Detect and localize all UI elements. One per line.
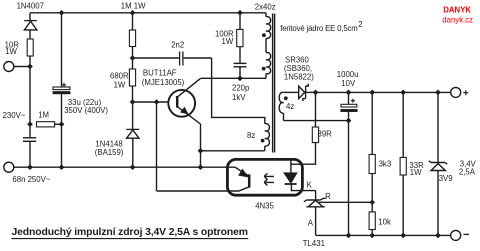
junction rail 220p (237, 10, 242, 15)
wire +out rail (316, 91, 451, 93)
zener D4 3V9 (429, 92, 447, 235)
junction emitter / 8z (198, 148, 203, 153)
wire rail to R3 (132, 13, 134, 30)
svg-text:2,5A: 2,5A (459, 167, 476, 176)
svg-text:2: 2 (358, 20, 362, 29)
label minus sign output (464, 233, 470, 235)
wire x30 column down to 68n (29, 67, 31, 138)
svg-text:danyk.cz: danyk.cz (442, 16, 473, 25)
wire 8z bottom to emitter (201, 150, 265, 152)
svg-text:3V9: 3V9 (439, 174, 453, 183)
diode D2 1N4148 (BA159) (126, 129, 139, 167)
wire base (133, 101, 169, 103)
wire terminal L to node (14, 66, 30, 68)
junction gnd x30 (27, 165, 32, 170)
svg-text:1N5822): 1N5822) (284, 73, 314, 82)
svg-text:1W: 1W (222, 37, 234, 46)
junction -rail x348.5 (346, 233, 351, 238)
resistor R6 3k3 (369, 92, 375, 211)
svg-text:BUT11AF: BUT11AF (143, 69, 177, 78)
junction collector 220p (237, 76, 242, 81)
wire output gnd rail (316, 234, 451, 236)
svg-text:68n 250V~: 68n 250V~ (12, 175, 50, 184)
svg-text:1W: 1W (5, 47, 17, 56)
label + of 33u (62, 83, 66, 87)
junction 1M left (27, 122, 32, 127)
label 3,4V 2,5A (459, 159, 477, 176)
svg-text:1W: 1W (114, 80, 126, 89)
junction ref divider (370, 200, 375, 205)
svg-text:1W: 1W (410, 168, 422, 177)
label feritove jadro EE 0,5cm2 (280, 20, 362, 33)
resistor R3 1M 1W (startup) (129, 30, 135, 47)
junction +rail 1000u (346, 90, 351, 95)
wire top +310V rail (30, 12, 266, 14)
resistor R2 1M (bleeder) (37, 122, 55, 127)
svg-text:(MJE13005): (MJE13005) (142, 78, 185, 87)
wire base node down to 1N4148 (132, 102, 134, 129)
resistor R7 10k (369, 212, 375, 236)
wire 680R to base node (132, 86, 134, 102)
svg-text:350V (400V): 350V (400V) (64, 106, 108, 115)
terminal output minus (451, 230, 461, 240)
wire D3 to +out rail (306, 91, 316, 93)
svg-text:DANYK: DANYK (443, 6, 471, 15)
junction 2n2 node (130, 55, 135, 60)
wire 2n2 to 8z top (212, 58, 265, 124)
label 100R 1W (215, 29, 234, 46)
svg-text:feritové jádro EE 0,5cm: feritové jádro EE 0,5cm (280, 24, 358, 33)
capacitor C4 220p 1kV (234, 47, 247, 79)
diode D1 1N4007 (24, 21, 37, 39)
label 1N4148 (BA159) (95, 140, 124, 158)
svg-text:2n2: 2n2 (171, 41, 184, 50)
svg-text:2x40z: 2x40z (255, 2, 276, 11)
resistor R4 680R 1W (129, 69, 135, 86)
optocoupler U1 4N35 box (227, 159, 302, 195)
terminal output plus (451, 87, 461, 97)
junction +rail 33R (401, 90, 406, 95)
svg-text:39R: 39R (318, 129, 333, 138)
svg-text:1M 1W: 1M 1W (121, 2, 146, 11)
capacitor C3 2n2 (133, 52, 212, 66)
svg-text:K: K (307, 180, 313, 189)
label 1000u 10V (337, 70, 359, 88)
junction -rail x438 (435, 233, 440, 238)
junction gnd x200.5 (198, 165, 203, 170)
svg-text:3k3: 3k3 (379, 160, 392, 169)
capacitor C5 1000u 10V (341, 92, 358, 120)
svg-text:(BA159): (BA159) (95, 148, 124, 157)
junction -rail x372.2 (370, 233, 375, 238)
svg-text:1kV: 1kV (232, 93, 246, 102)
wire primary ground rail (14, 166, 228, 168)
svg-text:1M: 1M (38, 110, 49, 119)
svg-text:1000u: 1000u (337, 70, 359, 79)
junction rail x132.5 (130, 10, 135, 15)
wire x61.5 rail to 33u (61, 13, 63, 87)
label plus sign output (463, 90, 468, 95)
resistor R5 39R (291, 92, 319, 164)
capacitor C2 33u 350V electrolytic (53, 87, 70, 94)
junction gnd x61.5 (59, 165, 64, 170)
wire 33u to 1M node and ground (61, 94, 63, 167)
svg-text:680R: 680R (110, 72, 129, 81)
junction sec gnd 1000u (346, 118, 351, 123)
svg-text:220p: 220p (232, 83, 250, 92)
junction +rail 3k3 (370, 90, 375, 95)
svg-text:230V~: 230V~ (3, 111, 26, 120)
svg-text:10V: 10V (341, 79, 356, 88)
terminal input N (4, 162, 14, 172)
label SR360 (SB360, 1N5822) (284, 55, 314, 81)
junction 1M right (59, 122, 64, 127)
svg-text:TL431: TL431 (303, 239, 325, 248)
opto phototransistor (157, 167, 250, 191)
label + of 1000u (351, 99, 355, 103)
opto light arrows (264, 173, 274, 185)
capacitor C1 68n 250V~ (23, 138, 36, 142)
junction input L node (27, 64, 32, 69)
opto LED (284, 161, 316, 191)
label BUT11AF (MJE13005) (142, 69, 185, 88)
label 680R 1W (110, 72, 129, 90)
wire collector (201, 77, 266, 79)
junction -rail x403.2 (401, 233, 406, 238)
resistor R8 33R 1W (400, 92, 406, 235)
junction rail x61.5 (59, 10, 64, 15)
label 33u (22u) 350V (400V) (64, 98, 108, 115)
resistor R1 10R 1W (27, 39, 33, 56)
label 220p 1kV (232, 83, 250, 101)
polarity dot 8z (261, 139, 265, 143)
svg-text:4z: 4z (286, 102, 294, 111)
junction D3 out / 39R (313, 90, 318, 95)
label 33R 1W (409, 161, 424, 177)
wire 4z bottom secondary gnd (284, 120, 349, 122)
svg-text:4N35: 4N35 (255, 202, 274, 211)
svg-text:A: A (308, 219, 314, 228)
wire 68n to ground rail (29, 142, 31, 167)
svg-text:8z: 8z (247, 131, 255, 140)
junction gnd x132.5 (130, 165, 135, 170)
transformer T1 secondary winding 4z (279, 92, 283, 120)
transformer T1 feedback winding 8z (265, 124, 270, 151)
svg-text:1N4007: 1N4007 (17, 2, 44, 11)
wire emitter down (200, 124, 202, 167)
resistor R9 100R 1W (237, 13, 243, 47)
svg-text:R: R (325, 192, 331, 201)
junction +rail zener (435, 90, 440, 95)
label 10R 1W (5, 40, 20, 56)
svg-text:10k: 10k (378, 217, 391, 226)
polarity dot 4z (284, 96, 288, 100)
transistor Q1 BUT11AF (168, 78, 200, 124)
wire 4z to diode D3 (284, 91, 299, 93)
wire R3 to node 2n2 (132, 47, 134, 70)
logo DANYK danyk.cz (442, 6, 473, 25)
junction base node x156.5 (154, 99, 159, 104)
wire opto emitter up to base node (156, 102, 158, 191)
IC U2 TL431 (304, 191, 326, 236)
polarity dot primary lower (262, 67, 266, 71)
title Jednoduchy impulzni zdroj (12, 227, 249, 239)
terminal input L (4, 62, 14, 72)
svg-text:Jednoduchý impulzní zdroj 3,4V: Jednoduchý impulzní zdroj 3,4V 2,5A s op… (12, 227, 249, 238)
wire 1M to x61.5 column (55, 123, 62, 125)
wire x30 column top (diode to rail) (29, 13, 31, 20)
junction base node x132.5 (130, 99, 135, 104)
wire sec gnd down to -rail (348, 121, 350, 236)
transformer T1 primary winding 2x40z (266, 13, 271, 79)
diode D3 SR360 schottky (299, 84, 309, 101)
polarity dot primary upper (262, 33, 266, 37)
wire 10R to input node (29, 56, 31, 67)
wire TL431 ref (319, 201, 373, 203)
transformer core EE (273, 14, 275, 153)
